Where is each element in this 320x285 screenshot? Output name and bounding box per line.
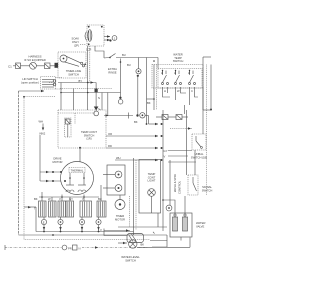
- svg-text:N: N: [79, 247, 81, 251]
- svg-text:BU: BU: [122, 53, 126, 57]
- svg-text:H: H: [164, 89, 166, 93]
- svg-text:V: V: [164, 155, 166, 159]
- svg-text:THERMAL: THERMAL: [71, 169, 84, 173]
- svg-text:OR: OR: [108, 132, 112, 136]
- svg-text:RD: RD: [108, 144, 112, 148]
- svg-text:MOTOR: MOTOR: [53, 160, 63, 164]
- svg-text:N: N: [98, 96, 100, 100]
- svg-text:A: A: [174, 71, 176, 75]
- svg-text:(1R): (1R): [86, 137, 91, 141]
- svg-text:V662: V662: [39, 132, 46, 136]
- svg-text:BU: BU: [127, 63, 131, 67]
- svg-text:RINSE: RINSE: [108, 70, 116, 74]
- svg-text:GY: GY: [69, 197, 73, 201]
- svg-text:BK: BK: [147, 101, 151, 105]
- svg-text:PR: PR: [68, 247, 72, 251]
- svg-text:SWITCH: SWITCH: [173, 59, 184, 63]
- svg-text:E: E: [43, 221, 45, 225]
- svg-text:SWITCH: SWITCH: [68, 72, 79, 76]
- svg-text:MOTOR: MOTOR: [115, 217, 125, 221]
- svg-text:(2P): (2P): [74, 44, 79, 48]
- svg-text:BK: BK: [134, 120, 138, 124]
- svg-text:WH: WH: [116, 156, 121, 160]
- svg-text:SWITCH: SWITCH: [125, 258, 136, 262]
- svg-text:BK: BK: [141, 243, 145, 247]
- svg-text:C: C: [191, 89, 193, 93]
- svg-text:SOAK: SOAK: [72, 37, 80, 41]
- svg-text:CONTROL: CONTROL: [178, 180, 182, 194]
- svg-text:(open position): (open position): [21, 80, 39, 84]
- svg-text:VALVE: VALVE: [196, 225, 204, 229]
- svg-text:WATER: WATER: [196, 221, 205, 225]
- svg-text:WH: WH: [39, 120, 44, 124]
- svg-text:C1: C1: [8, 65, 12, 69]
- svg-text:WASH & SPIN: WASH & SPIN: [173, 174, 177, 192]
- svg-text:1CR: 1CR: [86, 48, 91, 52]
- svg-text:A: A: [188, 71, 190, 75]
- svg-text:BY: BY: [79, 79, 83, 83]
- svg-text:LIGHT: LIGHT: [148, 179, 156, 183]
- svg-text:GY: GY: [164, 149, 168, 153]
- svg-text:SWITCH (1B): SWITCH (1B): [191, 155, 208, 159]
- svg-text:A: A: [161, 71, 163, 75]
- svg-text:IF SO EQUIPPED: IF SO EQUIPPED: [24, 58, 46, 62]
- svg-text:SWITCH: SWITCH: [202, 188, 213, 192]
- svg-text:V: V: [100, 228, 102, 232]
- svg-text:ONLY: ONLY: [72, 40, 79, 44]
- svg-text:V: V: [59, 197, 61, 201]
- svg-text:BK: BK: [34, 197, 38, 201]
